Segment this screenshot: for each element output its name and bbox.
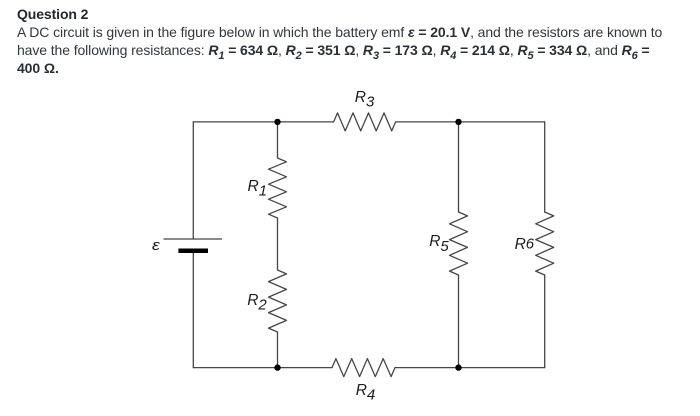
wire right top (R6 top lead) — [544, 122, 546, 212]
wire bottom right segment — [395, 367, 545, 369]
label R6 — [515, 239, 535, 250]
wire R5 branch top lead — [458, 122, 460, 212]
wire R5 branch bottom lead — [458, 275, 460, 368]
label epsilon (battery emf) — [152, 240, 160, 251]
wire bottom left segment — [193, 367, 332, 369]
wire left bottom (battery bottom lead) — [192, 251, 194, 368]
wire left top (battery top lead) — [192, 122, 194, 239]
junction node bottom-right (R5 branch / bottom wire) — [455, 364, 461, 370]
resistor R6 — [536, 212, 554, 275]
label R4 — [356, 385, 376, 396]
battery emf source, long plate — [164, 238, 222, 240]
wire right bottom (R6 bottom lead) — [544, 275, 546, 368]
wire middle branch top (R1 top lead) — [277, 122, 279, 158]
resistor R5 — [450, 212, 468, 275]
wire top left segment — [193, 121, 333, 123]
wire top right segment — [396, 121, 545, 123]
resistor R3 — [334, 113, 396, 131]
junction node top-left (middle branch / top wire) — [274, 119, 280, 125]
junction node top-right (R5 branch / top wire) — [455, 119, 461, 125]
resistor R4 — [332, 359, 395, 377]
label R3 — [355, 92, 375, 103]
battery emf source, short thick plate — [178, 249, 208, 254]
junction node bottom-left (middle branch / bottom wire) — [274, 364, 280, 370]
resistor R1 — [269, 158, 287, 218]
label R2 — [247, 295, 267, 306]
wire middle branch between R1 and R2 — [277, 218, 279, 270]
label R1 — [248, 181, 268, 192]
label R5 — [429, 236, 449, 247]
resistor R2 — [269, 270, 287, 332]
wire middle branch bottom (R2 bottom lead) — [277, 332, 279, 368]
